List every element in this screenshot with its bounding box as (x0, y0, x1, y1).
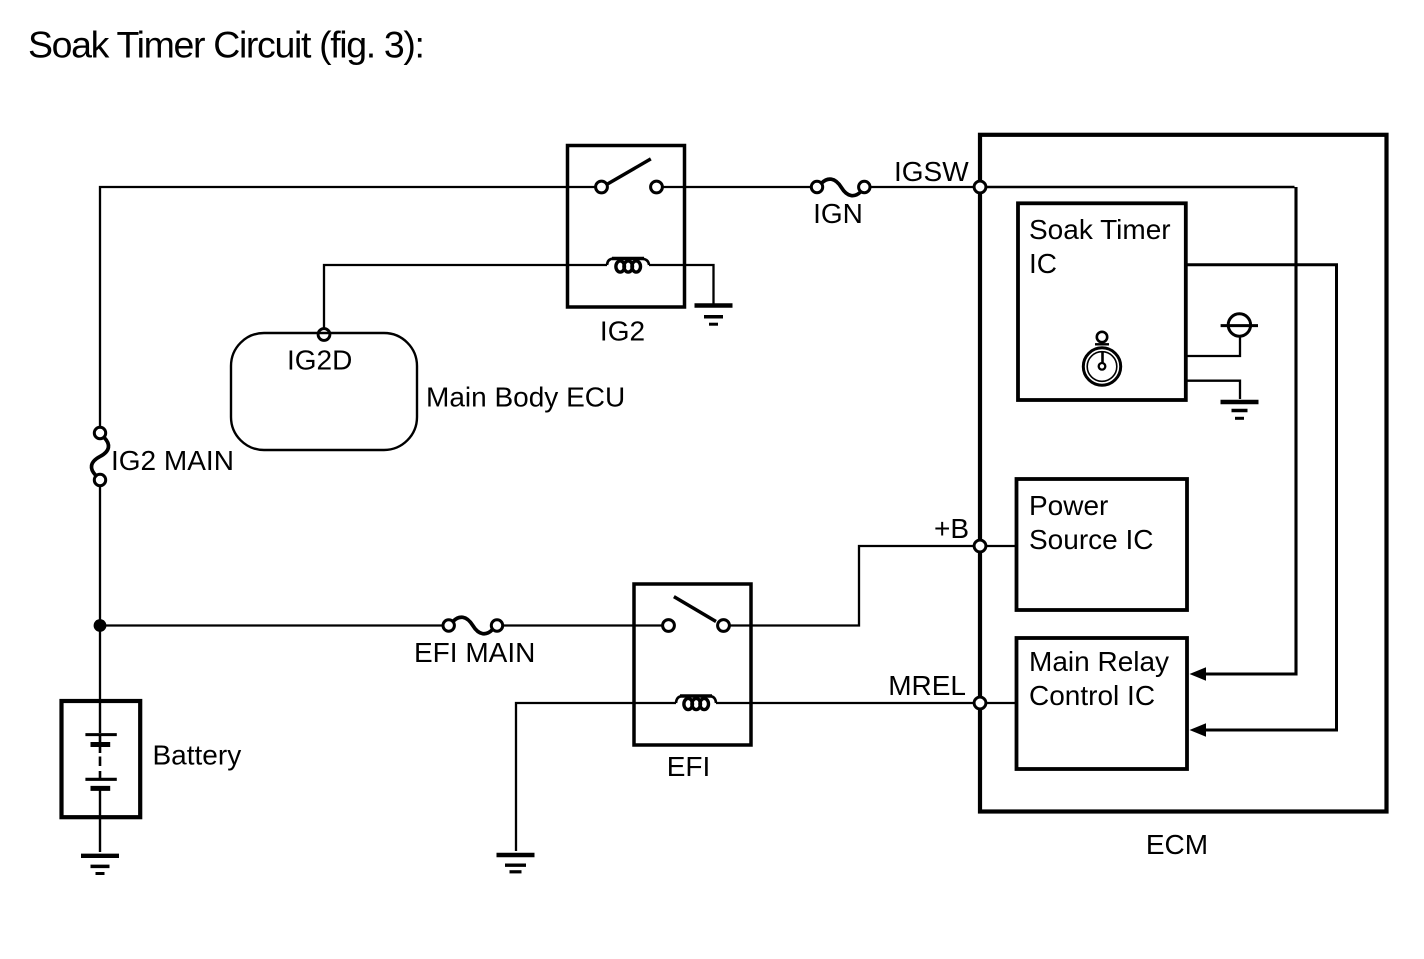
box ECM (980, 135, 1387, 812)
wire: MREL node to Main Relay Control IC (986, 702, 1017, 704)
node +B (974, 540, 986, 552)
wire: IGN fuse to IGSW node (871, 186, 975, 188)
node MREL (974, 697, 986, 709)
box Main Body ECU (231, 333, 417, 450)
wire: IG2 relay coil to ground (649, 265, 714, 304)
svg-text:Control IC: Control IC (1029, 680, 1155, 711)
wire: Soak Timer IC to oscillator symbol (1186, 337, 1240, 357)
svg-text:MREL: MREL (888, 670, 966, 701)
svg-text:Soak Timer: Soak Timer (1029, 214, 1171, 245)
node IG2D (318, 329, 330, 341)
IC Main Relay Control (1017, 638, 1188, 769)
wire: EFI relay coil to ground (516, 703, 676, 851)
svg-text:IG2: IG2 (600, 316, 645, 347)
ground (battery) (81, 856, 119, 874)
svg-text:Power: Power (1029, 490, 1108, 521)
svg-text:IGSW: IGSW (894, 156, 969, 187)
fuse IG2 MAIN (91, 427, 108, 485)
svg-text:IG2 MAIN: IG2 MAIN (111, 445, 234, 476)
wire: junction to EFI MAIN fuse (100, 624, 442, 626)
oscillator symbol (1221, 314, 1258, 336)
wire: Soak Timer IC to ground (1186, 381, 1240, 399)
stopwatch icon (soak timer) (1083, 332, 1120, 385)
svg-text:EFI MAIN: EFI MAIN (414, 637, 535, 668)
arrowhead (upper, into Main Relay Control IC) (1190, 667, 1207, 680)
wire: IG2 relay switch to IGN fuse (662, 186, 810, 188)
wire: IG2 MAIN fuse down to battery (99, 487, 101, 701)
fuse IGN (811, 179, 870, 196)
ground (IG2 relay coil) (695, 306, 733, 325)
relay EFI (634, 584, 751, 745)
wire: IGSW node to Main Relay Control IC (upper arrow) (986, 186, 1295, 188)
wire: +B node to Power Source IC (986, 545, 1017, 547)
svg-text:ECM: ECM (1146, 829, 1208, 860)
wire: Soak Timer IC to Main Relay Control IC (lower arrow) (1186, 265, 1337, 730)
svg-text:+B: +B (934, 513, 969, 544)
svg-text:IG2D: IG2D (287, 345, 352, 376)
svg-text:EFI: EFI (667, 751, 711, 782)
battery (62, 699, 141, 852)
ground (EFI relay coil) (497, 855, 535, 872)
wire: battery rail up and across to IG2 relay switch (100, 187, 596, 427)
ground (Soak Timer IC) (1221, 402, 1259, 418)
IC U1 Soak Timer (1018, 203, 1186, 400)
fuse EFI MAIN (443, 617, 503, 634)
wire: EFI MAIN fuse to EFI relay switch (503, 624, 662, 626)
wire: EFI relay coil to MREL node (716, 702, 974, 704)
wire: IG2 relay coil to Main Body ECU IG2D (324, 265, 607, 329)
node IGSW (974, 181, 986, 193)
arrowhead (lower, into Main Relay Control IC) (1190, 723, 1207, 736)
junction node (battery rail / EFI MAIN) (94, 619, 107, 632)
svg-text:Soak Timer Circuit (fig. 3):: Soak Timer Circuit (fig. 3): (28, 24, 424, 66)
svg-text:Battery: Battery (153, 740, 242, 771)
relay IG2 (568, 146, 685, 308)
svg-text:Source IC: Source IC (1029, 524, 1154, 555)
IC Power Source (1017, 479, 1188, 610)
svg-text:Main Relay: Main Relay (1029, 646, 1169, 677)
svg-text:IGN: IGN (813, 198, 863, 229)
svg-text:Main Body ECU: Main Body ECU (426, 382, 625, 413)
svg-text:IC: IC (1029, 248, 1057, 279)
wire: EFI relay switch to +B node (729, 546, 974, 626)
